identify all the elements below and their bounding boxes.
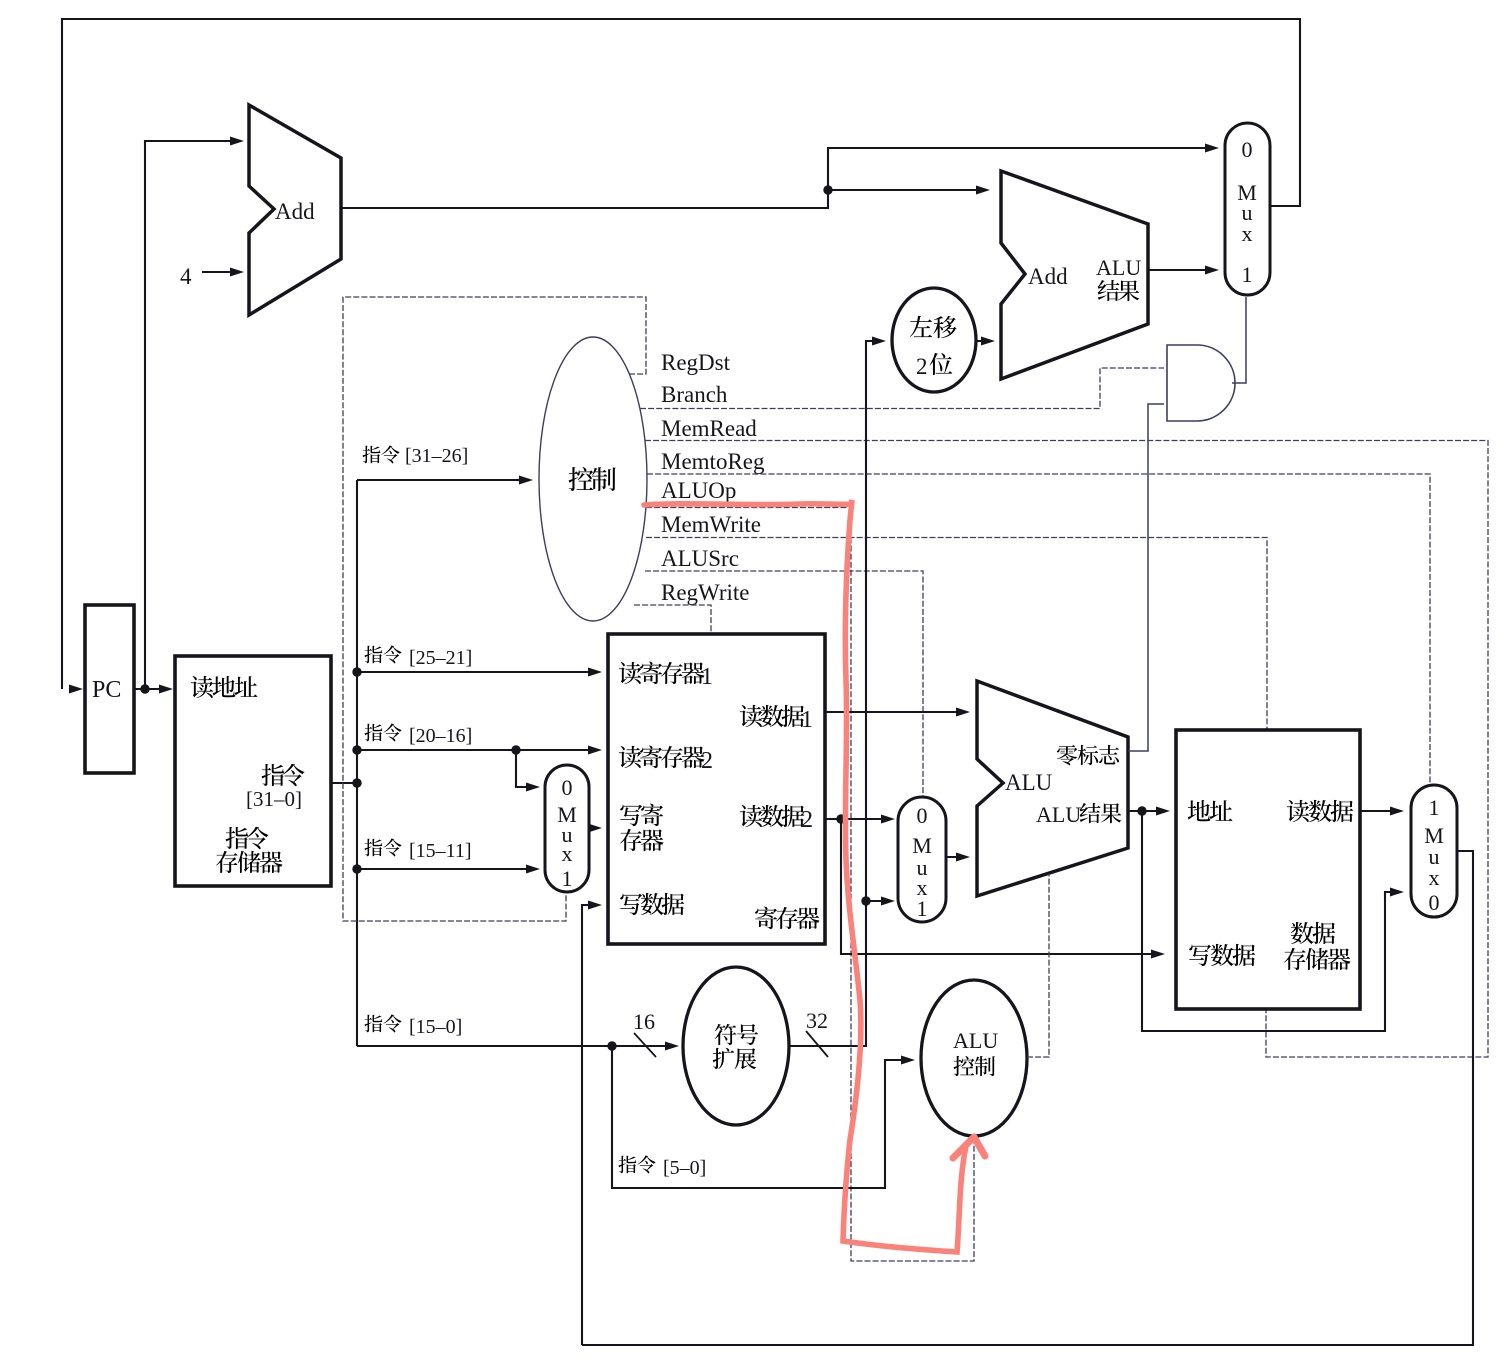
write-register mux <box>545 765 589 892</box>
svg-text:1: 1 <box>1242 262 1253 287</box>
wire read data 2 to data memory write data <box>841 819 1165 959</box>
label read register 2 <box>619 746 713 774</box>
label mux M <box>1424 823 1444 848</box>
PC source mux <box>1225 123 1270 295</box>
control signal MemtoReg to write-back mux <box>647 474 1430 786</box>
label address <box>1188 800 1233 821</box>
label ALUSrc <box>661 546 739 571</box>
ALU control ellipse <box>921 980 1027 1136</box>
sign extend ellipse <box>683 967 789 1125</box>
label read data 2 <box>740 805 813 833</box>
constant 4 input to Add <box>180 264 244 289</box>
svg-text:Add: Add <box>1028 264 1068 289</box>
label MemRead <box>661 416 757 441</box>
label write register <box>620 804 663 852</box>
wire zero flag to AND gate <box>1128 404 1164 751</box>
control signal ALU control to ALU <box>1027 874 1049 1057</box>
junction PC+4 <box>823 185 832 194</box>
label mux 1 <box>917 896 928 921</box>
wire read data 1 to ALU <box>825 708 970 717</box>
label instruction [15-11] <box>364 839 471 862</box>
svg-text:Add: Add <box>275 199 315 224</box>
wire instruction [5-0] to ALU control <box>612 1046 915 1188</box>
label mux 1 <box>1242 262 1253 287</box>
label mux 0 <box>1242 137 1253 162</box>
wire read data to write-back mux <box>1360 807 1404 816</box>
label mux x <box>1429 865 1440 890</box>
label mux 0 <box>917 803 928 828</box>
label mux x <box>1242 221 1253 246</box>
wire sign extend output riser to shift-left-2 and ALUSrc mux <box>789 337 886 1047</box>
svg-text:2: 2 <box>916 354 928 379</box>
wire PC+4 to branch adder top input <box>828 186 990 195</box>
label instruction [15-0] <box>364 1015 462 1038</box>
label data memory <box>1284 922 1350 970</box>
svg-text:0: 0 <box>562 775 573 800</box>
label mux u <box>562 822 573 847</box>
label write data <box>1189 944 1255 966</box>
svg-text:MemRead: MemRead <box>661 416 757 441</box>
label RegWrite <box>661 580 750 605</box>
wire instruction memory output to bus <box>331 778 362 787</box>
label 16-bit width <box>633 1009 656 1057</box>
label instruction [25-21] <box>364 646 472 669</box>
shift left 2 ellipse <box>892 288 976 392</box>
label mux M <box>1237 180 1257 205</box>
label instruction [5-0] <box>618 1156 706 1179</box>
PC register <box>85 605 134 773</box>
write-back mux <box>1411 785 1457 917</box>
wire instruction [15-0] to sign extend <box>357 1042 679 1051</box>
label read data 1 <box>740 705 813 733</box>
svg-text:2: 2 <box>701 748 713 774</box>
svg-text:1: 1 <box>917 896 928 921</box>
svg-text:RegWrite: RegWrite <box>661 580 750 605</box>
label write data <box>620 893 684 915</box>
label Branch <box>661 382 728 407</box>
svg-text:ALUSrc: ALUSrc <box>661 546 739 571</box>
svg-text:ALU: ALU <box>1036 802 1081 827</box>
svg-text:MemWrite: MemWrite <box>661 512 761 537</box>
svg-text:PC: PC <box>92 677 121 703</box>
AND gate branch <box>1167 345 1235 421</box>
junction instruction [20-16] <box>511 745 520 754</box>
label mux u <box>1429 844 1440 869</box>
svg-text:[31–0]: [31–0] <box>246 787 302 811</box>
wire ALUSrc mux to ALU <box>946 853 970 862</box>
svg-text:MemtoReg: MemtoReg <box>661 449 765 474</box>
wire PC-source mux output to PC input (top border loop) <box>62 19 1300 694</box>
svg-text:x: x <box>562 841 573 866</box>
label mux u <box>917 855 928 880</box>
red annotation arrowhead <box>953 1137 985 1158</box>
wire AND gate output to PC source mux select <box>1232 297 1246 383</box>
instruction bus vertical <box>356 480 358 1046</box>
svg-text:[5–0]: [5–0] <box>663 1157 706 1179</box>
control unit ellipse <box>539 337 647 621</box>
svg-text:4: 4 <box>180 264 192 289</box>
junction sign-extended value <box>861 896 870 905</box>
wire ALU result bypass to write-back mux <box>1142 811 1404 1031</box>
svg-text:0: 0 <box>1242 137 1253 162</box>
wire write-back mux output loop <box>582 851 1473 1345</box>
label instruction [20-16] <box>364 724 472 747</box>
label RegDst <box>661 350 731 375</box>
label read data <box>1287 800 1353 822</box>
control signal RegDst to write-register mux <box>343 297 646 921</box>
label instruction [31-0] <box>246 764 305 811</box>
control signal MemRead to data memory <box>645 441 1488 1058</box>
ALU <box>977 681 1128 896</box>
label mux 0 <box>1429 890 1440 915</box>
wire instruction [20-16] to read register 2 <box>352 745 602 754</box>
wire PC output riser to Add input <box>145 137 244 690</box>
svg-text:ALU: ALU <box>1096 255 1141 280</box>
svg-text:[15–0]: [15–0] <box>409 1016 462 1038</box>
label ALUOp <box>661 478 736 503</box>
control signal ALUSrc to ALU source mux <box>645 571 923 796</box>
junction instruction [15-0] <box>607 1041 616 1050</box>
control signal MemWrite to data memory <box>646 538 1267 730</box>
data memory <box>1176 730 1360 1009</box>
wire Add output to branch Add and PC mux <box>341 144 1219 209</box>
label mux 1 <box>562 866 573 891</box>
label 32-bit width <box>806 1008 828 1057</box>
svg-text:16: 16 <box>633 1009 655 1034</box>
svg-text:ALU: ALU <box>1005 770 1053 795</box>
wire ALU result to data memory address <box>1128 806 1170 815</box>
svg-text:1: 1 <box>562 866 573 891</box>
svg-text:32: 32 <box>806 1008 828 1033</box>
wire shift left 2 to branch adder <box>976 337 995 346</box>
registers block <box>608 634 825 944</box>
svg-text:[25–21]: [25–21] <box>409 647 472 669</box>
wire instruction [31-26] to control <box>357 476 533 485</box>
svg-text:0: 0 <box>917 803 928 828</box>
svg-text:[31–26]: [31–26] <box>405 445 468 467</box>
svg-text:ALUOp: ALUOp <box>661 478 736 503</box>
wire instruction [25-21] to read register 1 <box>352 667 602 676</box>
svg-text:1: 1 <box>1429 795 1440 820</box>
svg-text:2: 2 <box>801 807 813 833</box>
control signal Branch to AND gate <box>640 368 1164 409</box>
label mux M <box>557 802 577 827</box>
adder Add (PC+4) <box>249 105 341 315</box>
label read-address <box>191 676 258 698</box>
svg-text:Branch: Branch <box>661 382 728 407</box>
wire sign-extended value to ALUSrc mux input 1 <box>866 897 895 906</box>
wire instruction [20-16] branch to mux input 0 <box>516 750 540 792</box>
label registers <box>755 907 819 930</box>
label read register 1 <box>619 662 713 690</box>
svg-text:[15–11]: [15–11] <box>409 840 472 862</box>
label mux M <box>912 833 932 858</box>
red annotation ALUOp path highlight <box>644 500 966 1252</box>
label instruction [31-26] <box>362 445 468 467</box>
control signal RegWrite to registers <box>634 605 711 633</box>
label instruction memory <box>216 827 282 873</box>
label mux 1 <box>1429 795 1440 820</box>
svg-text:1: 1 <box>801 707 813 733</box>
label mux x <box>917 875 928 900</box>
control signal ALUOp to ALU control <box>646 508 974 1262</box>
label MemWrite <box>661 512 761 537</box>
wire instruction [15-11] to mux input 1 <box>352 864 540 873</box>
svg-text:ALU: ALU <box>953 1028 998 1053</box>
svg-text:RegDst: RegDst <box>661 350 731 375</box>
svg-text:0: 0 <box>1429 890 1440 915</box>
svg-text:x: x <box>1242 221 1253 246</box>
ALU source mux <box>898 797 946 922</box>
svg-text:1: 1 <box>701 664 713 690</box>
wire PC output to instruction memory read address <box>134 684 173 693</box>
instruction memory <box>175 656 331 886</box>
label mux 0 <box>562 775 573 800</box>
label MemtoReg <box>661 449 765 474</box>
wire write data from write-back loop <box>582 901 602 1346</box>
wire branch adder result to PC mux <box>1148 266 1219 275</box>
wire read data 2 to ALUSrc mux <box>825 814 895 823</box>
svg-text:x: x <box>1429 865 1440 890</box>
label mux x <box>562 841 573 866</box>
adder Add (branch target) <box>1001 171 1148 379</box>
svg-text:[20–16]: [20–16] <box>409 725 472 747</box>
label mux u <box>1242 200 1253 225</box>
wire write-register mux to registers <box>588 824 602 833</box>
